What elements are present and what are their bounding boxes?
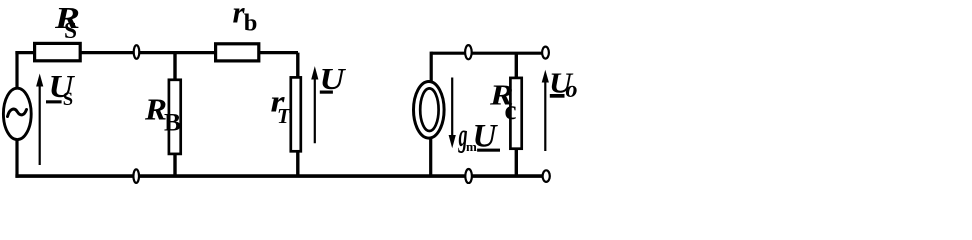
svg-text:b: b: [244, 10, 258, 37]
svg-text:B: B: [164, 107, 181, 136]
svg-text:S: S: [64, 18, 77, 43]
svg-text:T: T: [277, 104, 291, 128]
svg-text:S: S: [63, 90, 73, 110]
svg-text:o: o: [566, 77, 578, 103]
svg-text:c: c: [505, 95, 517, 125]
